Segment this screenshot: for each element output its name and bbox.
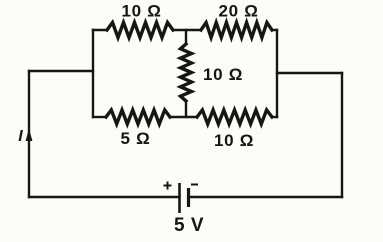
wire bottom-left segment of bridge [93,116,106,118]
wire bottom-right corner of bridge [272,116,277,118]
svg-text:20 Ω: 20 Ω [218,2,258,21]
wire right outer vertical [341,73,343,197]
battery BT1 positive long plate [178,183,181,213]
wire left tap from bridge to outer loop [29,70,93,72]
wire top-middle segment node B [173,29,201,31]
wire right tap from bridge to outer loop [277,72,342,74]
wire left outer vertical [28,71,30,197]
current arrow on left wire [26,129,33,142]
resistor R1 10ohm top-left zigzag [107,23,173,38]
wire top-left segment [93,29,107,31]
svg-text:5 V: 5 V [174,215,204,236]
resistor R3 10ohm middle vertical zigzag [181,44,192,101]
battery BT1 negative short plate [187,188,190,207]
wire bottom outer right of battery [189,196,343,198]
wire bridge left edge [92,30,94,117]
svg-text:5 Ω: 5 Ω [121,129,151,148]
battery minus sign [191,184,198,186]
svg-text:I: I [18,128,23,145]
svg-text:10 Ω: 10 Ω [203,65,243,84]
battery plus sign [164,182,172,190]
wire top-right corner to bridge right edge [272,29,277,31]
svg-text:10 Ω: 10 Ω [214,131,254,150]
resistor R5 10ohm bottom-right zigzag [197,110,272,124]
wire bottom-middle segment node D [170,116,197,118]
wire bridge right edge [276,30,278,117]
resistor R2 20ohm top-right zigzag [201,23,272,38]
resistor R4 5ohm bottom-left zigzag [106,110,170,124]
wire bottom outer left of battery [29,196,180,198]
svg-text:10 Ω: 10 Ω [121,2,161,21]
wire middle branch bottom stub [185,101,187,117]
wire middle branch top stub [185,30,187,44]
